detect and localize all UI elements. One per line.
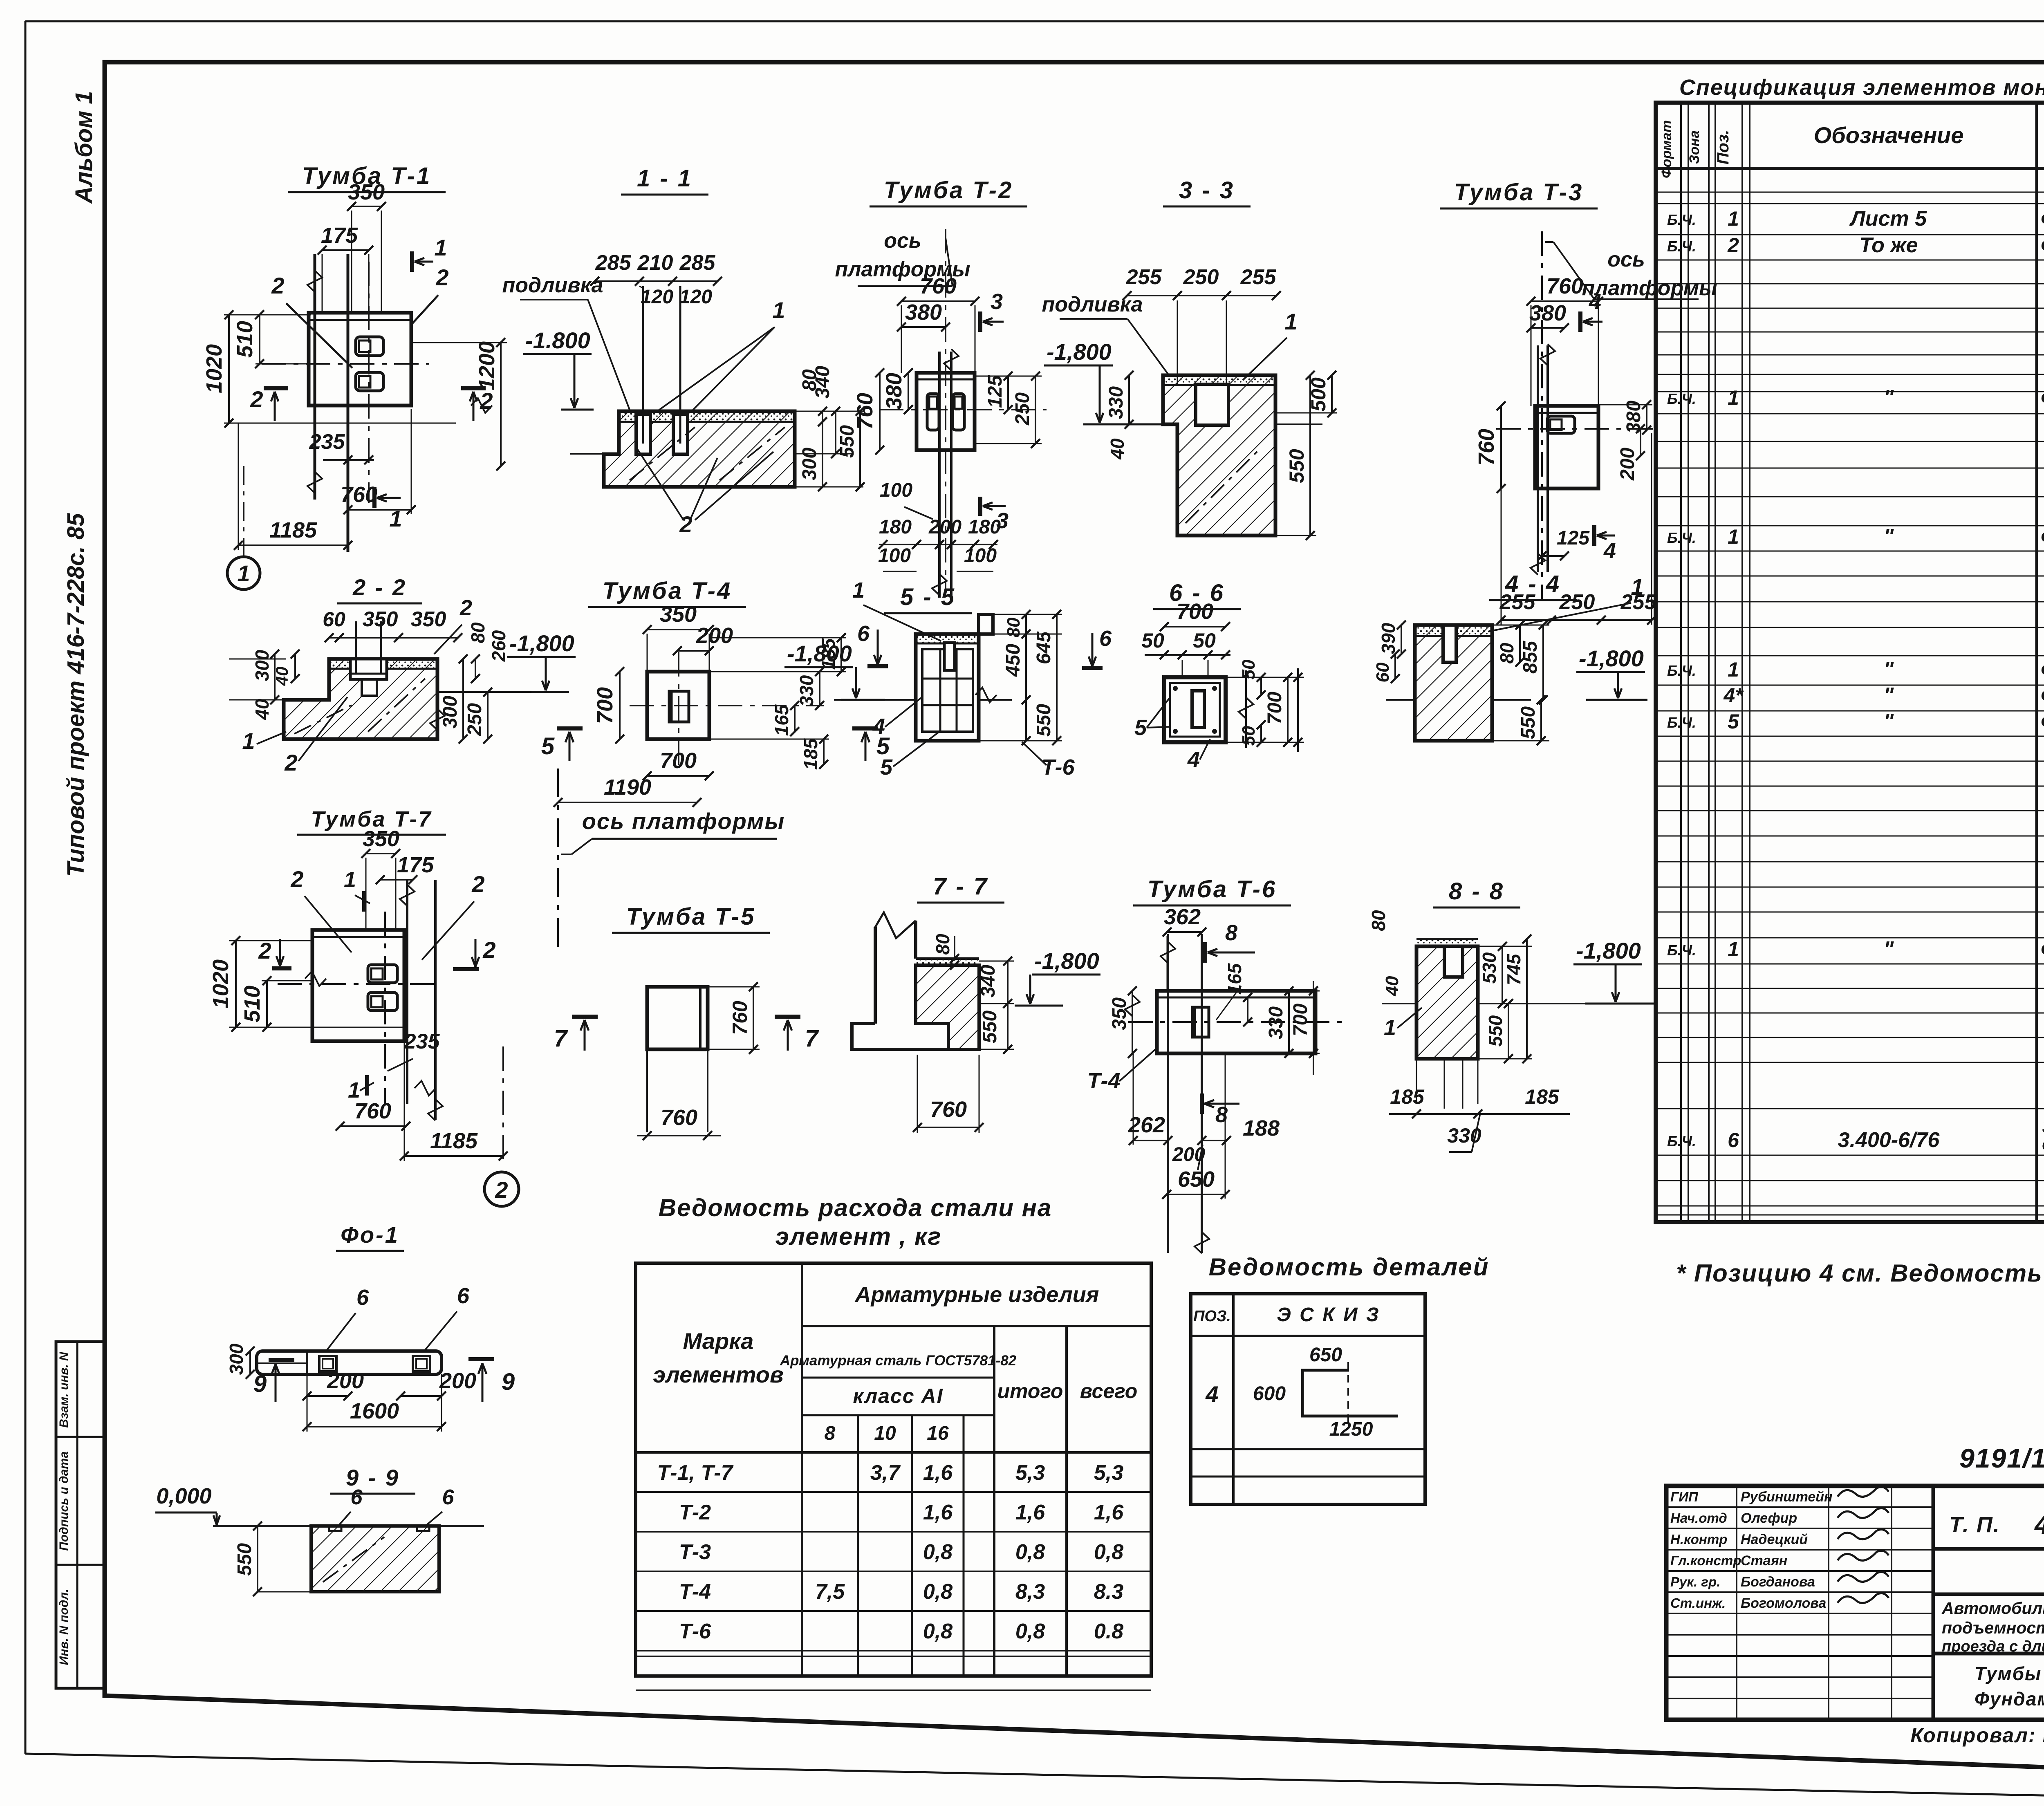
svg-text:1: 1 bbox=[1728, 386, 1739, 409]
svg-text:0,8: 0,8 bbox=[923, 1620, 953, 1643]
svg-text:": " bbox=[1884, 525, 1894, 549]
svg-text:760: 760 bbox=[930, 1097, 967, 1122]
svg-text:": " bbox=[1884, 710, 1894, 733]
svg-text:3.400-6/76: 3.400-6/76 bbox=[1838, 1128, 1940, 1152]
svg-text:Б.Ч.: Б.Ч. bbox=[1667, 714, 1696, 731]
svg-text:Ведомость расхода стали на: Ведомость расхода стали на bbox=[659, 1194, 1052, 1221]
steel table frame bbox=[636, 1263, 1151, 1676]
svg-text:ПОЗ.: ПОЗ. bbox=[1193, 1308, 1231, 1325]
svg-text:Фо-1: Фо-1 bbox=[341, 1222, 399, 1248]
svg-text:6: 6 bbox=[351, 1486, 363, 1509]
svg-text:340: 340 bbox=[977, 965, 999, 997]
svg-text:элемент , кг: элемент , кг bbox=[775, 1223, 942, 1250]
svg-text:1: 1 bbox=[1631, 574, 1643, 600]
svg-text:1: 1 bbox=[389, 506, 402, 531]
svg-text:100: 100 bbox=[964, 545, 997, 567]
svg-text:2: 2 bbox=[480, 388, 493, 414]
svg-text:Ст.инж.: Ст.инж. bbox=[1670, 1595, 1726, 1611]
svg-text:Тумба Т-6: Тумба Т-6 bbox=[1148, 876, 1277, 903]
svg-text:60: 60 bbox=[323, 608, 345, 631]
svg-text:Богданова: Богданова bbox=[1741, 1574, 1815, 1590]
svg-text:1: 1 bbox=[1284, 309, 1297, 334]
svg-text:855: 855 bbox=[1520, 641, 1541, 674]
svg-text:1600: 1600 bbox=[350, 1399, 399, 1423]
svg-text:550: 550 bbox=[1517, 706, 1539, 739]
svg-text:760: 760 bbox=[728, 1001, 751, 1035]
svg-text:255: 255 bbox=[1240, 265, 1277, 289]
svg-text:Нач.отд: Нач.отд bbox=[1670, 1510, 1727, 1526]
svg-text:Н.контр: Н.контр bbox=[1670, 1532, 1727, 1547]
svg-text:Богомолова: Богомолова bbox=[1741, 1595, 1826, 1611]
svg-text:745: 745 bbox=[1503, 953, 1524, 985]
svg-text:100: 100 bbox=[878, 545, 911, 567]
svg-text:2: 2 bbox=[459, 596, 472, 620]
svg-text:550: 550 bbox=[1285, 449, 1308, 483]
svg-text:Олефир: Олефир bbox=[1741, 1510, 1797, 1526]
svg-text:80: 80 bbox=[467, 622, 489, 643]
svg-text:-1,800: -1,800 bbox=[1576, 938, 1641, 963]
svg-text:Т-4: Т-4 bbox=[1087, 1069, 1121, 1093]
svg-text:* Позицию 4 см. Ведомость: * Позицию 4 см. Ведомость деталей bbox=[1676, 1259, 2044, 1287]
svg-text:Т-3: Т-3 bbox=[679, 1540, 711, 1564]
svg-text:класс АI: класс АI bbox=[853, 1385, 943, 1407]
svg-text:Т. П.: Т. П. bbox=[1949, 1512, 2000, 1537]
svg-text:645: 645 bbox=[1033, 631, 1055, 664]
svg-text:80: 80 bbox=[1368, 910, 1389, 931]
svg-text:Автомобильные весы грузо-: Автомобильные весы грузо- bbox=[1941, 1599, 2044, 1618]
svg-text:1185: 1185 bbox=[269, 518, 317, 542]
svg-text:": " bbox=[1884, 658, 1894, 681]
svg-text:80: 80 bbox=[1496, 643, 1517, 664]
svg-text:7: 7 bbox=[805, 1025, 819, 1052]
svg-text:Т-6: Т-6 bbox=[1042, 755, 1075, 780]
svg-text:16: 16 bbox=[927, 1423, 949, 1444]
svg-text:60: 60 bbox=[1373, 662, 1393, 682]
svg-text:340: 340 bbox=[812, 366, 834, 399]
svg-text:4: 4 bbox=[1603, 538, 1616, 563]
svg-text:330: 330 bbox=[1105, 386, 1127, 419]
svg-text:6: 6 bbox=[1728, 1129, 1739, 1152]
svg-text:100: 100 bbox=[880, 480, 912, 501]
svg-text:300: 300 bbox=[799, 448, 820, 480]
svg-text:Ф8АI ГОСТ 5781-82 ℓ=2500: Ф8АI ГОСТ 5781-82 ℓ=2500 bbox=[2041, 685, 2044, 706]
svg-text:": " bbox=[1884, 937, 1894, 961]
svg-text:250: 250 bbox=[1559, 590, 1595, 614]
svg-text:Ф16АI ГОСТ 5781-82 ℓ=500: Ф16АI ГОСТ 5781-82 ℓ=500 bbox=[2041, 526, 2044, 548]
outer thin sheet border bbox=[25, 20, 2044, 22]
specification table frame bbox=[1656, 103, 2044, 1222]
svg-text:всего: всего bbox=[1080, 1380, 1138, 1403]
svg-text:362: 362 bbox=[1164, 905, 1201, 929]
svg-text:Обозначение: Обозначение bbox=[1814, 122, 1964, 148]
svg-text:550: 550 bbox=[979, 1011, 1001, 1043]
svg-text:Ф16АI ГОСТ 5781-82 ℓ=500: Ф16АI ГОСТ 5781-82 ℓ=500 bbox=[2041, 939, 2044, 960]
svg-text:0,8: 0,8 bbox=[1015, 1540, 1045, 1564]
svg-text:6: 6 bbox=[857, 621, 870, 646]
svg-text:200: 200 bbox=[696, 623, 733, 648]
svg-text:1,6: 1,6 bbox=[923, 1501, 953, 1524]
svg-text:Ф16АI ГОСТ 5781-82 ℓ=500: Ф16АI ГОСТ 5781-82 ℓ=500 bbox=[2041, 208, 2044, 230]
svg-text:8 - 8: 8 - 8 bbox=[1449, 878, 1504, 905]
svg-text:1: 1 bbox=[434, 235, 447, 260]
svg-text:350: 350 bbox=[348, 180, 385, 204]
svg-text:ось: ось bbox=[1607, 248, 1645, 271]
svg-text:300: 300 bbox=[226, 1343, 247, 1375]
svg-text:1: 1 bbox=[1384, 1015, 1396, 1040]
svg-text:550: 550 bbox=[1033, 704, 1055, 737]
svg-text:8: 8 bbox=[1225, 921, 1237, 945]
svg-text:760: 760 bbox=[853, 393, 877, 430]
svg-text:235: 235 bbox=[309, 430, 345, 454]
svg-text:2 - 2: 2 - 2 bbox=[352, 574, 407, 600]
svg-text:ГИП: ГИП bbox=[1670, 1489, 1699, 1504]
svg-text:7 - 7: 7 - 7 bbox=[933, 873, 988, 900]
svg-text:125: 125 bbox=[984, 375, 1006, 408]
svg-text:175: 175 bbox=[321, 223, 358, 248]
svg-text:Типовой проект 416-7-228с. 8: Типовой проект 416-7-228с. 85 bbox=[63, 513, 89, 877]
svg-text:подливка: подливка bbox=[502, 273, 603, 297]
svg-text:Тумба Т-3: Тумба Т-3 bbox=[1454, 179, 1583, 206]
svg-text:185: 185 bbox=[800, 738, 821, 770]
svg-text:380: 380 bbox=[1529, 301, 1566, 325]
svg-text:5 - 5: 5 - 5 bbox=[900, 584, 956, 610]
svg-text:600: 600 bbox=[1253, 1383, 1286, 1405]
svg-text:4: 4 bbox=[1187, 747, 1200, 772]
svg-text:1250: 1250 bbox=[1329, 1418, 1373, 1440]
svg-text:2: 2 bbox=[495, 1177, 508, 1203]
svg-text:6: 6 bbox=[356, 1285, 369, 1310]
svg-text:235: 235 bbox=[404, 1030, 440, 1053]
svg-text:7,5: 7,5 bbox=[815, 1580, 845, 1604]
svg-text:185: 185 bbox=[1390, 1085, 1425, 1108]
svg-text:760: 760 bbox=[341, 482, 377, 507]
svg-text:4: 4 bbox=[1205, 1381, 1218, 1407]
svg-text:1: 1 bbox=[242, 728, 255, 754]
svg-text:285: 285 bbox=[679, 251, 716, 275]
svg-text:185: 185 bbox=[1525, 1085, 1560, 1108]
svg-text:650: 650 bbox=[1309, 1344, 1342, 1366]
svg-text:285: 285 bbox=[595, 251, 632, 275]
svg-text:1: 1 bbox=[344, 867, 356, 892]
svg-text:500: 500 bbox=[1307, 377, 1330, 412]
svg-text:подъемностью 30 тонн на два: подъемностью 30 тонн на два bbox=[1942, 1618, 2044, 1637]
svg-text:Т-1, Т-7: Т-1, Т-7 bbox=[657, 1461, 734, 1485]
title block signature grid bbox=[1666, 1506, 1933, 1508]
svg-text:260: 260 bbox=[488, 630, 509, 662]
svg-text:380: 380 bbox=[882, 373, 906, 410]
svg-text:530: 530 bbox=[1479, 952, 1500, 984]
left stamp column bbox=[56, 1342, 105, 1688]
svg-text:350: 350 bbox=[363, 827, 399, 851]
svg-text:175: 175 bbox=[397, 853, 434, 877]
svg-text:200: 200 bbox=[327, 1369, 364, 1393]
svg-text:3 - 3: 3 - 3 bbox=[1179, 177, 1235, 204]
svg-text:330: 330 bbox=[1265, 1006, 1287, 1039]
svg-text:700: 700 bbox=[1290, 1004, 1311, 1036]
svg-text:550: 550 bbox=[234, 1543, 255, 1576]
svg-text:760: 760 bbox=[1474, 429, 1499, 466]
svg-text:390: 390 bbox=[1378, 623, 1399, 654]
svg-text:255: 255 bbox=[1126, 265, 1162, 289]
svg-text:125: 125 bbox=[1557, 527, 1590, 549]
svg-text:210: 210 bbox=[637, 251, 673, 275]
svg-text:250: 250 bbox=[1012, 392, 1033, 426]
svg-text:760: 760 bbox=[1546, 274, 1583, 298]
svg-text:200: 200 bbox=[1617, 448, 1638, 481]
svg-text:5: 5 bbox=[1134, 715, 1147, 740]
svg-text:760: 760 bbox=[354, 1099, 391, 1123]
svg-text:8: 8 bbox=[1215, 1102, 1228, 1127]
svg-text:8: 8 bbox=[825, 1423, 836, 1444]
svg-text:1: 1 bbox=[772, 297, 785, 323]
svg-text:Инв. N подл.: Инв. N подл. bbox=[57, 1589, 71, 1665]
svg-text:188: 188 bbox=[1243, 1116, 1280, 1141]
svg-text:Копировал: Макарчук: Копировал: Макарчук bbox=[1910, 1724, 2044, 1747]
svg-text:165: 165 bbox=[1224, 963, 1245, 995]
svg-text:9191/1: 9191/1 bbox=[1959, 1443, 2044, 1473]
svg-text:700: 700 bbox=[593, 687, 617, 724]
svg-text:1200: 1200 bbox=[475, 341, 499, 390]
svg-text:40: 40 bbox=[1107, 438, 1128, 460]
svg-text:250: 250 bbox=[464, 703, 486, 736]
svg-text:ось платформы: ось платформы bbox=[582, 808, 785, 834]
svg-text:-1,800: -1,800 bbox=[1047, 339, 1112, 365]
svg-text:0,8: 0,8 bbox=[1015, 1620, 1045, 1643]
svg-text:элементов: элементов bbox=[653, 1362, 784, 1387]
svg-text:200: 200 bbox=[439, 1369, 476, 1393]
svg-text:Поз.: Поз. bbox=[1714, 130, 1732, 165]
svg-text:-1,800: -1,800 bbox=[1034, 948, 1099, 974]
svg-text:-1,800: -1,800 bbox=[787, 641, 852, 666]
svg-text:0,000: 0,000 bbox=[156, 1484, 211, 1508]
svg-text:4*: 4* bbox=[1723, 684, 1744, 707]
svg-text:6: 6 bbox=[1099, 626, 1112, 651]
svg-text:деталь МН1-23: деталь МН1-23 bbox=[2042, 1133, 2044, 1155]
svg-text:50: 50 bbox=[1193, 629, 1216, 652]
svg-text:2: 2 bbox=[284, 750, 297, 775]
svg-text:0,8: 0,8 bbox=[923, 1580, 953, 1604]
svg-text:Ф16АI ГОСТ 5781-82 ℓ= 500: Ф16АI ГОСТ 5781-82 ℓ= 500 bbox=[2041, 659, 2044, 681]
svg-text:подливка: подливка bbox=[1042, 293, 1143, 316]
svg-text:Тумба Т-4: Тумба Т-4 bbox=[603, 578, 732, 604]
svg-text:0.8: 0.8 bbox=[1094, 1620, 1123, 1643]
svg-text:700: 700 bbox=[1177, 599, 1213, 624]
svg-text:180: 180 bbox=[879, 516, 912, 538]
svg-text:Б.Ч.: Б.Ч. bbox=[1667, 390, 1696, 407]
svg-text:9: 9 bbox=[253, 1371, 267, 1397]
svg-text:2: 2 bbox=[258, 938, 271, 963]
svg-text:Арматурная сталь ГОСТ5781-82: Арматурная сталь ГОСТ5781-82 bbox=[780, 1353, 1017, 1369]
svg-text:2: 2 bbox=[482, 937, 495, 963]
svg-text:Б.Ч.: Б.Ч. bbox=[1667, 238, 1696, 255]
svg-text:1020: 1020 bbox=[208, 959, 233, 1008]
svg-text:Ф10АI ГОСТ 5781-82 ℓ=980: Ф10АI ГОСТ 5781-82 ℓ=980 bbox=[2041, 235, 2044, 256]
svg-text:2: 2 bbox=[290, 866, 303, 892]
svg-text:200: 200 bbox=[928, 516, 961, 538]
svg-text:Подпись и дата: Подпись и дата bbox=[57, 1451, 71, 1551]
svg-text:1,6: 1,6 bbox=[1094, 1501, 1124, 1524]
svg-text:300: 300 bbox=[439, 696, 461, 728]
svg-text:50: 50 bbox=[1239, 659, 1259, 679]
svg-text:40: 40 bbox=[251, 699, 273, 720]
svg-text:Рук. гр.: Рук. гр. bbox=[1670, 1574, 1720, 1589]
svg-text:-1.800: -1.800 bbox=[525, 327, 590, 353]
svg-text:Арматурные изделия: Арматурные изделия bbox=[854, 1282, 1099, 1307]
svg-text:-1,800: -1,800 bbox=[509, 630, 574, 656]
svg-text:3,7: 3,7 bbox=[870, 1461, 901, 1485]
svg-text:Рубинштейн: Рубинштейн bbox=[1741, 1489, 1833, 1505]
svg-text:5: 5 bbox=[880, 755, 893, 780]
svg-text:1 - 1: 1 - 1 bbox=[637, 165, 693, 192]
svg-text:250: 250 bbox=[1183, 265, 1219, 289]
svg-text:10: 10 bbox=[874, 1423, 896, 1444]
svg-text:1: 1 bbox=[1728, 525, 1739, 548]
svg-text:5: 5 bbox=[1728, 710, 1739, 733]
svg-text:760: 760 bbox=[920, 274, 957, 298]
svg-text:ось: ось bbox=[884, 229, 921, 253]
svg-text:8,3: 8,3 bbox=[1015, 1580, 1045, 1604]
svg-text:Б.Ч.: Б.Ч. bbox=[1667, 211, 1696, 228]
svg-text:450: 450 bbox=[1002, 644, 1024, 677]
svg-text:Взам. инв. N: Взам. инв. N bbox=[57, 1351, 71, 1428]
svg-text:итого: итого bbox=[997, 1380, 1063, 1403]
svg-text:80: 80 bbox=[932, 934, 953, 955]
svg-text:165: 165 bbox=[771, 704, 792, 736]
svg-text:Тумба Т-2: Тумба Т-2 bbox=[884, 177, 1013, 204]
svg-text:6: 6 bbox=[457, 1284, 470, 1308]
svg-text:Гл.констр: Гл.констр bbox=[1670, 1553, 1741, 1568]
svg-text:1: 1 bbox=[852, 578, 865, 603]
svg-text:3: 3 bbox=[996, 509, 1009, 533]
svg-text:300: 300 bbox=[251, 650, 273, 681]
svg-text:1: 1 bbox=[1728, 207, 1739, 230]
svg-text:5,3: 5,3 bbox=[1015, 1461, 1045, 1485]
svg-text:1: 1 bbox=[1728, 658, 1739, 681]
svg-text:2: 2 bbox=[471, 871, 484, 897]
svg-text:": " bbox=[1884, 683, 1894, 707]
svg-text:8.3: 8.3 bbox=[1094, 1580, 1123, 1604]
specification table rules bbox=[1656, 192, 2044, 193]
svg-text:4 - 4: 4 - 4 bbox=[1505, 571, 1561, 597]
svg-text:Т-6: Т-6 bbox=[679, 1620, 711, 1643]
svg-text:9: 9 bbox=[502, 1369, 515, 1395]
title block frame bbox=[1666, 1486, 2044, 1720]
svg-text:350: 350 bbox=[411, 607, 446, 631]
svg-text:1185: 1185 bbox=[430, 1129, 478, 1153]
svg-text:проезда с длиной платформы 12: проезда с длиной платформы 12 м bbox=[1942, 1638, 2044, 1655]
svg-text:380: 380 bbox=[905, 300, 942, 325]
svg-text:510: 510 bbox=[240, 986, 264, 1022]
svg-text:Альбом 1: Альбом 1 bbox=[71, 91, 97, 204]
svg-text:4: 4 bbox=[872, 714, 885, 739]
svg-text:Э С К И З: Э С К И З bbox=[1277, 1304, 1380, 1326]
svg-text:Фундамент Фо-1: Фундамент Фо-1 bbox=[1975, 1688, 2044, 1710]
svg-text:Тумбы Т-1 ... Т-7: Тумбы Т-1 ... Т-7 bbox=[1975, 1663, 2044, 1684]
svg-text:2: 2 bbox=[435, 264, 448, 290]
svg-text:Формат: Формат bbox=[1659, 120, 1674, 178]
svg-text:416-7-228с. 85: 416-7-228с. 85 bbox=[2034, 1510, 2044, 1539]
svg-text:Ф8АI ГОСТ 5781-82 ℓ=1100: Ф8АI ГОСТ 5781-82 ℓ=1100 bbox=[2041, 711, 2044, 733]
svg-text:Б.Ч.: Б.Ч. bbox=[1667, 942, 1696, 959]
svg-text:760: 760 bbox=[661, 1105, 697, 1130]
svg-text:Ведомость деталей: Ведомость деталей bbox=[1209, 1253, 1490, 1281]
svg-text:1,6: 1,6 bbox=[923, 1461, 953, 1485]
svg-text:1020: 1020 bbox=[202, 344, 226, 393]
svg-text:2: 2 bbox=[1727, 234, 1739, 257]
svg-text:40: 40 bbox=[1382, 976, 1402, 996]
svg-text:1: 1 bbox=[1728, 938, 1739, 961]
svg-text:0,8: 0,8 bbox=[1094, 1540, 1123, 1564]
svg-text:550: 550 bbox=[1485, 1015, 1506, 1046]
title block right part bbox=[1933, 1547, 2044, 1551]
svg-text:Спецификация элементов монол: Спецификация элементов монолитной констр… bbox=[1679, 75, 2044, 100]
svg-text:5,3: 5,3 bbox=[1094, 1461, 1123, 1485]
svg-text:1: 1 bbox=[237, 560, 250, 586]
svg-text:Лист 5: Лист 5 bbox=[1849, 207, 1927, 231]
svg-text:Б.Ч.: Б.Ч. bbox=[1667, 529, 1696, 546]
svg-text:510: 510 bbox=[233, 321, 257, 358]
svg-text:То же: То же bbox=[1859, 233, 1918, 257]
svg-text:7: 7 bbox=[554, 1025, 568, 1052]
svg-text:Б.Ч.: Б.Ч. bbox=[1667, 662, 1696, 679]
svg-text:350: 350 bbox=[1109, 997, 1130, 1030]
svg-text:2: 2 bbox=[250, 386, 263, 412]
svg-text:120: 120 bbox=[641, 286, 673, 308]
svg-text:Марка: Марка bbox=[683, 1328, 754, 1354]
svg-text:Зона: Зона bbox=[1687, 130, 1702, 164]
svg-text:3: 3 bbox=[991, 289, 1003, 314]
svg-text:1,6: 1,6 bbox=[1015, 1501, 1045, 1524]
svg-text:120: 120 bbox=[679, 286, 712, 308]
svg-text:Тумба Т-5: Тумба Т-5 bbox=[626, 903, 755, 930]
svg-text:0,8: 0,8 bbox=[923, 1540, 953, 1564]
svg-text:": " bbox=[1884, 386, 1894, 410]
svg-text:4: 4 bbox=[1589, 289, 1601, 314]
svg-text:2: 2 bbox=[271, 273, 284, 298]
svg-text:650: 650 bbox=[1178, 1167, 1215, 1192]
svg-text:-1,800: -1,800 bbox=[1579, 645, 1644, 671]
svg-text:350: 350 bbox=[660, 602, 697, 627]
svg-text:Б.Ч.: Б.Ч. bbox=[1667, 1133, 1696, 1149]
svg-text:Ф16АI ГОСТ 5781-82 ℓ=500: Ф16АI ГОСТ 5781-82 ℓ=500 bbox=[2041, 387, 2044, 409]
svg-text:6: 6 bbox=[442, 1486, 455, 1509]
svg-text:Надецкий: Надецкий bbox=[1741, 1532, 1808, 1547]
svg-text:Т-4: Т-4 bbox=[679, 1580, 711, 1604]
svg-text:700: 700 bbox=[1264, 692, 1286, 724]
svg-text:5: 5 bbox=[541, 733, 555, 760]
svg-text:Стаян: Стаян bbox=[1741, 1553, 1787, 1568]
svg-text:50: 50 bbox=[1141, 629, 1164, 652]
svg-text:1190: 1190 bbox=[604, 775, 651, 800]
svg-text:700: 700 bbox=[660, 748, 697, 773]
svg-text:Т-2: Т-2 bbox=[679, 1501, 711, 1524]
